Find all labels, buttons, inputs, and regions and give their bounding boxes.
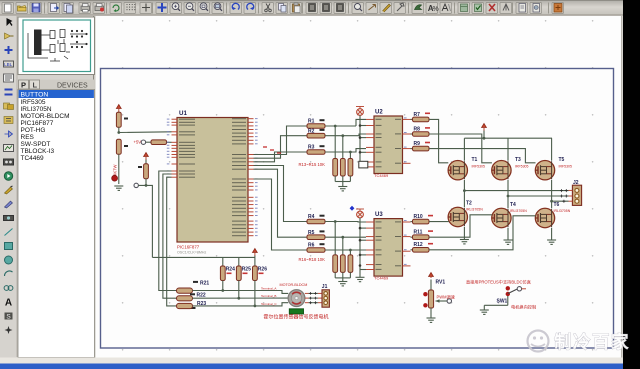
svg-text:TC4469: TC4469 [374,276,389,281]
power +5V terminal [253,249,258,258]
label proteus BLDC note [466,279,531,286]
ground [427,318,436,322]
connector J2 [560,180,582,205]
power +5V terminal (top left) [116,105,121,113]
transistor T2 [448,201,472,227]
P L DEVICES header [18,80,95,90]
label MOTOR-BLDCM [280,283,308,287]
wire [118,154,120,184]
resistor R28 [138,164,148,179]
svg-text:LBL: LBL [4,62,13,67]
terminal (input) [134,183,138,187]
label motor reverse note [511,304,536,311]
svg-text:T1: T1 [472,157,478,163]
wire hall C [167,177,177,306]
grid dots [122,20,594,351]
ground [480,310,489,314]
wire RC2 to R3 [254,152,308,162]
svg-text:R21: R21 [200,280,209,286]
resistor R14 [340,134,345,176]
main edit window background [95,16,622,358]
resistor R1 [307,119,366,129]
transistor T3 [492,157,521,180]
resistor R5 [307,230,366,240]
wire RC3 to R4 [254,166,308,222]
wire RC5 to R6 [254,179,308,250]
svg-text:R24: R24 [226,267,235,273]
svg-text:PIC16F877: PIC16F877 [21,120,54,127]
svg-text:制冷百家: 制冷百家 [554,332,630,352]
wire [117,127,171,134]
svg-text:R16~R18 10K: R16~R18 10K [299,257,326,262]
resistor R12 [411,216,536,252]
watermark [528,331,631,353]
power terminal (U3 inputs) [356,209,367,282]
label IRLI3705N (T6) [554,209,571,213]
sheet border [101,69,614,349]
resistor R10 [411,214,449,224]
svg-text:TC4469: TC4469 [374,173,389,178]
resistor R27 [151,140,172,145]
op-amp U1 PIC16F877 body [167,110,258,242]
label IRLI3705N (T4) [510,209,527,213]
op-amp U2 TC4469 body [366,110,411,174]
svg-text:SW-SPDT: SW-SPDT [21,141,51,148]
label hall sensor note [264,313,329,320]
label Terminal_A [261,287,277,291]
wire [430,308,432,318]
svg-text:T5: T5 [559,157,565,163]
wire RC1 to R2 [254,136,308,159]
svg-text:DEVICES: DEVICES [57,83,88,90]
motor speed display [289,309,303,314]
power terminal (U2 inputs) [356,107,368,168]
svg-text:RES: RES [21,134,35,141]
edit window left border [93,16,95,358]
transistor T1 [448,157,477,180]
label R16-R18 10K [299,257,326,262]
resistor R8 [411,126,492,162]
wire [335,176,350,186]
svg-text:TBLOCK-I3: TBLOCK-I3 [21,148,55,155]
svg-text:IRF5305: IRF5305 [559,164,572,168]
connector J1 [322,284,330,307]
resistor R2 [307,128,366,138]
ground [547,240,556,244]
ground [338,187,347,191]
label R13-R15 10K [299,162,326,167]
resistor R22 [177,293,289,301]
ground [338,282,347,286]
resistor R24 [220,257,235,292]
label TC4469 (U2) [374,173,389,178]
svg-text:IRLI3705N: IRLI3705N [466,207,483,211]
svg-text:霍尔位置传感器信号反馈电机: 霍尔位置传感器信号反馈电机 [264,313,329,320]
svg-text:IRF5305: IRF5305 [515,164,528,168]
svg-text:BUTTON: BUTTON [21,92,49,99]
wire T6 source [551,228,553,240]
label IRF5305 (T3) [515,164,528,168]
resistor R25 [236,257,251,299]
motor M1 BLDC [288,290,322,307]
ground [504,240,513,244]
wire hall A [159,171,177,291]
svg-text:T3: T3 [515,157,521,163]
resistor R21 [177,280,289,293]
switch SW1 [484,286,526,309]
label IRF5305 (T1) [472,164,485,168]
label Terminal_C [261,302,277,306]
svg-text:SW1: SW1 [497,299,508,305]
svg-text:J1: J1 [322,284,328,290]
resistor R18 [348,249,353,273]
resistor R7 [411,112,449,163]
svg-text:IRF5305: IRF5305 [472,164,485,168]
resistor R11 [411,215,493,240]
resistor R4 [307,214,366,224]
wire T4 source [507,228,509,240]
svg-text:+5V: +5V [134,140,142,145]
label 4K7 (vertical red) [113,165,118,176]
svg-text:POT-HG: POT-HG [21,127,46,134]
svg-text:直接用PROTEUS中支持BLDC仿真: 直接用PROTEUS中支持BLDC仿真 [466,279,531,286]
transistor T4 [492,202,516,228]
wire [335,272,350,281]
svg-text:R26: R26 [258,267,267,273]
svg-text:IRLI3705N: IRLI3705N [554,209,571,213]
device list [18,90,95,358]
label +5V [134,140,142,145]
resistor R20 [116,139,128,154]
svg-text:RV1: RV1 [436,279,446,285]
svg-text:A: A [5,298,12,309]
wire [152,256,255,258]
resistor R6 [307,243,366,253]
ground [114,186,123,190]
wire T2 source [463,227,465,240]
resistor R16 [333,220,338,272]
wire RC4 to R5 [254,169,308,237]
svg-text:IRLI3705N: IRLI3705N [510,209,527,213]
svg-text:PIC16F877: PIC16F877 [177,245,200,250]
ground [460,240,469,244]
power +5V terminal [144,153,149,164]
wire +12V rail [464,137,552,161]
top toolbar [0,0,623,16]
power +5V terminal (RV1) [429,273,434,291]
terminal (input) [141,140,151,144]
svg-text:Terminal_B: Terminal_B [261,294,276,298]
label TC4469 (U3) [374,276,389,281]
svg-text:U3: U3 [375,212,383,218]
wire RC0 to R1 [254,126,308,155]
potentiometer RV1 [423,279,451,308]
svg-text:P: P [21,80,26,89]
resistor R26 [253,257,268,307]
label net marks [263,146,281,153]
resistor R9 [411,141,536,163]
svg-text:MOTOR-BLDCM: MOTOR-BLDCM [21,113,70,120]
button K1 (red dot) [112,175,118,181]
svg-text:T4: T4 [510,202,516,208]
svg-text:R25: R25 [242,267,251,273]
label PWM speed [437,293,455,299]
right black bar [623,0,640,369]
resistor R17 [340,236,345,273]
svg-text:IRF5305: IRF5305 [21,99,46,106]
transistor T5 [535,157,564,180]
svg-text:IRLI3705N: IRLI3705N [21,106,52,113]
svg-text:%: % [433,6,439,13]
label Terminal_B [261,294,276,298]
svg-text:PWM调速: PWM调速 [437,293,455,299]
svg-text:T6: T6 [554,202,560,208]
svg-text:U2: U2 [375,110,383,116]
svg-text:R13~R15 10K: R13~R15 10K [299,162,326,167]
label PIC16F877 [177,245,200,250]
svg-text:4K7W: 4K7W [113,165,118,176]
resistor R13 [333,125,338,176]
svg-text:U1: U1 [179,110,187,117]
label IRLI3705N (T2) [466,207,483,211]
wire [145,179,148,187]
op-amp U3 TC4469 body [366,212,411,276]
transistor T6 [535,202,559,228]
label IRF5305 (T5) [559,164,572,168]
overview window [18,17,95,75]
resistor R23 [177,301,289,309]
wire hall B [163,174,177,298]
wire phase A [463,180,569,208]
svg-text:Terminal_A: Terminal_A [261,287,277,291]
svg-text:S: S [6,313,11,320]
svg-text:OSC1/CLK=8MHz: OSC1/CLK=8MHz [177,251,206,255]
power +12V terminal [482,124,487,139]
resistor R3 [307,145,366,155]
svg-text:L: L [33,80,38,89]
resistor R15 [348,151,353,176]
svg-text:TC4469: TC4469 [21,155,45,162]
svg-text:MOTOR-BLDCM: MOTOR-BLDCM [280,283,308,287]
node (origin marker) [350,206,355,211]
wire phase C [550,180,568,209]
wire [138,185,152,257]
resistor R19 [116,112,128,127]
label OSC clock [177,251,206,255]
wire phase B [507,180,569,209]
svg-text:电机换向控制: 电机换向控制 [511,304,536,311]
svg-text:Terminal_C: Terminal_C [261,302,277,306]
svg-text:T2: T2 [466,201,472,207]
